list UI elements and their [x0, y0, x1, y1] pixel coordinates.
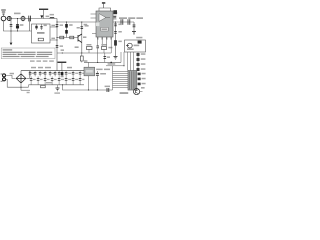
right pin comps	[138, 73, 146, 86]
aux wire	[57, 52, 111, 54]
snubber wire	[57, 21, 96, 23]
transistor Q5	[134, 89, 140, 95]
capacitor C15	[96, 71, 98, 73]
rectifier rows	[137, 53, 146, 71]
node	[123, 65, 124, 66]
label	[84, 24, 88, 26]
node	[56, 26, 57, 27]
wire	[43, 10, 45, 19]
power flag	[103, 4, 105, 8]
label	[50, 14, 54, 16]
pin wire	[92, 33, 96, 35]
label	[60, 24, 63, 26]
label	[46, 16, 50, 18]
pin stripes	[130, 71, 135, 89]
supply bar 2	[58, 62, 67, 63]
node	[110, 62, 112, 64]
input terminal X1	[3, 74, 6, 77]
pin labels	[85, 25, 89, 27]
label	[20, 24, 24, 26]
cap row 2	[30, 79, 82, 81]
diode D2	[36, 24, 38, 30]
return rails	[7, 86, 28, 88]
output wire	[113, 21, 134, 23]
label	[75, 46, 79, 48]
secondary box T1	[125, 40, 146, 52]
cap row 1	[29, 72, 82, 74]
IC2 PWM gray box	[96, 11, 113, 37]
cap stubs row1	[30, 71, 80, 77]
capacitor C4	[56, 24, 59, 26]
wire	[29, 71, 31, 79]
aux module M1	[84, 67, 95, 76]
note line	[3, 56, 49, 57]
rectifier D6	[138, 41, 142, 44]
base wire	[57, 37, 78, 39]
box wires	[121, 52, 134, 71]
bottom pins	[98, 37, 112, 40]
wire	[97, 53, 99, 62]
label GND	[54, 92, 60, 93]
terminal labels	[1, 73, 3, 74]
snubber diode D5	[113, 10, 117, 14]
node junctions	[10, 18, 18, 32]
label L1	[14, 13, 21, 15]
wire neutral bus	[4, 21, 32, 31]
rectifier chain wire	[137, 52, 139, 69]
wire	[140, 91, 143, 93]
inductor L2	[50, 17, 54, 18]
wire pin	[50, 26, 57, 28]
label	[27, 92, 30, 93]
ground	[114, 56, 118, 59]
label row	[119, 17, 127, 19]
diode D4	[65, 30, 68, 34]
ground	[132, 32, 136, 35]
capacitor C2	[10, 19, 12, 32]
pin labels	[51, 25, 55, 27]
input terminal X2	[3, 78, 6, 81]
HV rail wire	[56, 19, 58, 71]
supply wire	[99, 8, 111, 11]
aux row resistor R7	[86, 47, 92, 50]
ground	[10, 31, 12, 43]
wire	[29, 19, 31, 32]
label	[105, 86, 110, 88]
capacitor C7	[81, 22, 83, 53]
cap stubs row2	[31, 76, 80, 84]
cap labels row2	[33, 79, 84, 80]
label	[46, 82, 52, 83]
transistor Q1	[78, 34, 82, 43]
bridge wires	[20, 71, 22, 74]
wire	[5, 75, 15, 78]
pin wire	[91, 17, 97, 19]
right pin wires	[113, 13, 118, 19]
label IC1	[37, 32, 45, 34]
resistor R4	[70, 36, 74, 39]
label	[108, 63, 116, 64]
zener D7	[104, 53, 106, 62]
ground rail 2	[29, 84, 85, 86]
bottom rail	[84, 89, 113, 91]
label	[44, 25, 47, 27]
label	[136, 37, 142, 39]
transistor Q6	[58, 78, 60, 80]
fuse F1	[7, 17, 11, 21]
label	[100, 73, 106, 75]
wire	[3, 15, 5, 17]
resistor R8	[101, 47, 106, 50]
capacitor C9	[121, 19, 123, 25]
wire	[6, 18, 57, 20]
label	[77, 27, 80, 29]
note line	[3, 54, 53, 55]
notes box	[1, 48, 55, 59]
label	[10, 73, 14, 75]
op-amp U1	[99, 14, 106, 22]
label	[84, 60, 87, 62]
pin wire	[91, 13, 97, 15]
capacitor C11	[133, 22, 135, 32]
label	[83, 36, 86, 38]
resistor R3	[60, 36, 64, 39]
node	[66, 21, 67, 22]
capacitor C14	[96, 46, 99, 48]
return wire	[63, 85, 85, 90]
controller box IC1	[32, 24, 51, 43]
resistor R9	[41, 85, 46, 87]
label box	[101, 27, 108, 31]
diode D3	[66, 22, 68, 38]
capacitor C8	[113, 16, 116, 17]
label row	[96, 69, 102, 71]
capacitor C1	[29, 16, 31, 22]
capacitor C16	[107, 88, 109, 92]
left pin wires	[113, 72, 129, 88]
node	[56, 37, 57, 38]
transistor Q4	[127, 43, 132, 48]
wire	[5, 79, 7, 87]
capacitor C12	[114, 24, 117, 26]
label	[127, 48, 134, 50]
earth symbol	[1, 10, 6, 14]
diode D8	[61, 72, 64, 75]
label	[120, 92, 129, 94]
label	[69, 24, 72, 26]
capacitor C5	[41, 24, 43, 30]
label	[141, 87, 145, 89]
ground	[57, 85, 59, 88]
resistor R6	[114, 40, 117, 45]
DC rail	[21, 70, 84, 72]
label	[60, 45, 63, 47]
bottom pin wires	[98, 40, 112, 46]
label	[108, 47, 112, 49]
cap labels row1	[32, 73, 85, 78]
wire pin	[50, 39, 57, 41]
IC3 regulator block	[128, 71, 137, 91]
wire	[88, 62, 90, 67]
capacitor C6	[56, 45, 59, 47]
vertical	[112, 66, 114, 90]
capacitor C13	[114, 31, 117, 33]
ground rail	[84, 61, 121, 63]
resistor R2	[38, 38, 43, 41]
label	[61, 49, 64, 51]
diode D1	[40, 15, 43, 18]
varistor R1	[21, 17, 25, 21]
note line	[3, 52, 53, 53]
jog wire	[28, 85, 30, 87]
note title	[3, 49, 13, 50]
sense wire	[106, 65, 124, 67]
capacitor C10	[128, 19, 130, 25]
wire	[88, 76, 90, 90]
capacitor C3	[17, 19, 19, 32]
transistor resistor R5	[81, 53, 83, 56]
AC source G1	[1, 16, 6, 21]
label	[134, 45, 140, 47]
bridge rectifier B1	[16, 74, 26, 83]
comp stubs	[89, 46, 111, 53]
supply rail bar	[39, 9, 48, 10]
feedback rail	[115, 22, 117, 56]
label row	[30, 60, 54, 61]
